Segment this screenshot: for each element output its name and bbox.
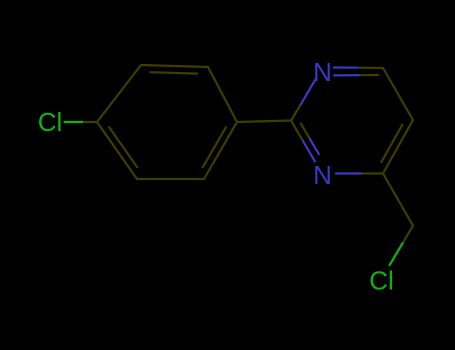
link bond phenyl-C2 — [237, 121, 291, 123]
wire bond L-TL — [97, 65, 141, 122]
wire bond R-BR double inner — [203, 127, 226, 167]
wire bond C4-CH2 — [383, 174, 413, 226]
wire bond CH2-Cl — [403, 226, 414, 244]
svg-text:N: N — [313, 57, 332, 87]
wire bond BR-BL — [137, 178, 204, 180]
wire bond C5=C4 double inner — [381, 125, 402, 162]
wire bond C4-N3 — [361, 172, 383, 174]
svg-text:Cl: Cl — [38, 107, 63, 137]
wire bond N1=C6 double outer — [334, 66, 359, 68]
wire bond BL-L double outer — [97, 122, 137, 179]
wire bond C2-N1 — [291, 104, 301, 121]
wire bond TR-R — [208, 67, 237, 122]
wire bond C5=C4 double outer — [383, 120, 413, 174]
wire bond TL-TR double inner — [150, 72, 197, 73]
chloromethyl group — [383, 174, 413, 266]
wire bond R-BR double outer — [204, 122, 237, 179]
wire bond N3=C2 double inner — [301, 123, 310, 138]
benzene ring (4-chlorophenyl) — [97, 65, 237, 179]
svg-text:Cl: Cl — [369, 266, 394, 296]
wire bond C6-C5 — [383, 68, 413, 120]
wire bond N3=C2 double outer — [291, 121, 303, 142]
pyrimidine ring — [291, 68, 413, 174]
wire bond N1=C6 double inner — [334, 74, 361, 76]
wire bond TL-TR double outer — [141, 65, 208, 67]
svg-text:N: N — [313, 160, 332, 190]
wire bond BL-L double inner — [109, 127, 137, 167]
aryl chloride bond Cl-C — [65, 121, 98, 123]
